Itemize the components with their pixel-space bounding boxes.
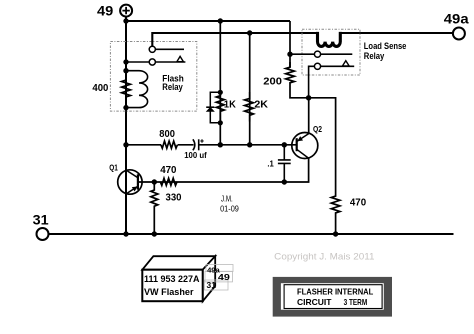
node: junction cap rail / 2K	[247, 142, 252, 147]
svg-text:49: 49	[218, 272, 230, 282]
wire: load sense contact 2 to Q2 node	[309, 66, 315, 98]
load sense relay dashed box	[302, 29, 360, 75]
wire: 1K branch vertical	[219, 21, 221, 145]
svg-text:Load Sense: Load Sense	[364, 41, 407, 51]
node: junction 31 / 330	[152, 231, 157, 236]
node: flash coil top	[123, 68, 128, 73]
svg-text:VW Flasher: VW Flasher	[144, 287, 194, 298]
terminal 31	[33, 213, 50, 240]
load sense contact 2	[314, 63, 320, 69]
svg-text:01-09: 01-09	[220, 204, 239, 213]
resistor 1K	[216, 92, 224, 121]
transistor Q1	[109, 163, 142, 194]
wire: left vertical rail from 49 down to 31	[125, 21, 127, 234]
node: junction base rail / .1 cap bottom	[282, 179, 287, 184]
flash relay contact 1	[149, 46, 155, 52]
svg-text:100 uf: 100 uf	[184, 151, 207, 160]
node: 1K top junction	[218, 90, 223, 95]
svg-text:.1: .1	[267, 158, 274, 168]
wire: 2K branch vertical	[249, 33, 251, 145]
wire from terminal 49 down	[125, 16, 127, 21]
wire: load sense contact 2 arm	[321, 65, 355, 67]
wire: between 800 and 100uf	[178, 144, 194, 146]
wire: bottom rail 31	[49, 233, 454, 235]
svg-text:800: 800	[159, 129, 175, 140]
node: junction Q2 emitter / 470 feed	[306, 95, 311, 100]
flash relay fixed contact triangle	[177, 56, 184, 61]
diode D1 (parallel with 1K)	[206, 92, 220, 123]
node: junction wire A / 1K branch	[218, 18, 223, 23]
capacitor .1	[278, 145, 291, 182]
node: junction cap rail / 1K	[218, 142, 223, 147]
svg-text:Q1: Q1	[109, 163, 118, 172]
resistor 470 (base)	[160, 178, 177, 185]
resistor 330	[151, 182, 158, 234]
svg-text:400: 400	[92, 83, 108, 94]
svg-text:31: 31	[207, 281, 217, 290]
svg-text:FLASHER INTERNAL: FLASHER INTERNAL	[297, 288, 373, 297]
resistor 2K	[245, 92, 254, 122]
wire: cap rail right part to Q2 base	[199, 144, 297, 146]
svg-text:CIRCUIT: CIRCUIT	[297, 298, 332, 307]
node: flash coil bottom	[123, 105, 128, 110]
flash relay dashed box	[110, 42, 196, 112]
wire to load sense contact 1	[290, 53, 314, 55]
wire: load sense contact 1 arm	[321, 53, 353, 55]
inductor: flash relay coil	[126, 71, 148, 108]
node: junction 200 / contact wire	[287, 52, 292, 57]
node: junction cap rail / .1 cap / Q2 base	[282, 142, 287, 147]
wire: junction to 470 branch	[309, 98, 336, 194]
terminal 49a	[444, 12, 469, 40]
node: junction 31 / 470	[333, 231, 338, 236]
svg-text:470: 470	[350, 197, 367, 208]
transistor Q2	[292, 125, 323, 159]
load sense fixed contact triangle	[342, 61, 349, 66]
svg-text:330: 330	[166, 193, 182, 204]
resistor 400 (flash relay coil resistance)	[122, 71, 131, 108]
svg-text:Relay: Relay	[162, 82, 183, 92]
flasher terminal tabs	[204, 265, 233, 291]
resistor 200	[286, 62, 309, 98]
wire: cap rail (y=144.8) left part	[126, 144, 161, 146]
inductor: load sense relay coil (in series with wire B)	[318, 32, 341, 47]
wire: flash contact 1 arm	[155, 48, 184, 50]
title box: FLASHER INTERNAL CIRCUIT 3 TERM	[273, 277, 392, 317]
svg-text:J.M.: J.M.	[221, 194, 233, 203]
svg-text:Q2: Q2	[313, 125, 322, 134]
svg-text:49: 49	[97, 4, 113, 19]
wire A: top horizontal from 49 to 200-branch corner	[126, 20, 290, 22]
node: junction wire B / 2K branch	[247, 30, 252, 35]
wire: flash contact 2 arm	[155, 61, 185, 63]
svg-text:470: 470	[160, 165, 177, 176]
node: junction rail / cap rail	[123, 142, 128, 147]
svg-text:111 953 227A: 111 953 227A	[144, 274, 200, 285]
wire: base rail y=182 from Q1 to Q2 collector	[138, 158, 309, 182]
resistor 470 (right)	[331, 194, 340, 234]
svg-text:3 TERM: 3 TERM	[344, 298, 368, 307]
node: junction 49	[123, 18, 128, 23]
terminal 49	[97, 4, 132, 19]
wire from rail to flash contact 2	[126, 61, 149, 63]
flash relay contact 2	[149, 59, 155, 65]
load sense contact 1	[314, 51, 320, 57]
svg-text:Copyright J. Mais 2011: Copyright J. Mais 2011	[274, 251, 374, 261]
svg-text:2K: 2K	[254, 99, 268, 110]
capacitor 100uf	[193, 139, 204, 150]
resistor 800	[161, 141, 178, 148]
node: junction base rail / 330	[152, 179, 157, 184]
svg-text:31: 31	[33, 213, 50, 228]
VW flasher 3D box	[142, 256, 215, 301]
node: 1K bottom junction	[218, 120, 223, 125]
svg-text:Relay: Relay	[364, 51, 385, 61]
svg-text:1K: 1K	[224, 99, 236, 110]
wire B: from flash contact corner to 49a	[152, 33, 453, 46]
svg-text:200: 200	[263, 77, 282, 88]
node: junction 31 / Q1 emitter	[123, 231, 128, 236]
wire: 200 branch from wire A corner down	[289, 21, 291, 67]
wire: Q2 emitter up to junction	[308, 98, 310, 134]
node: junction rail/contact2	[123, 59, 128, 64]
svg-text:49a: 49a	[444, 12, 469, 27]
